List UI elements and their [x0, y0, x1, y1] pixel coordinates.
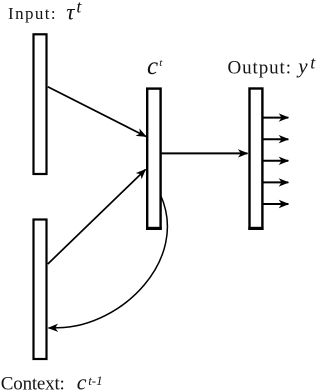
- svg-text:y: y: [296, 54, 308, 78]
- label Output: y^t: [228, 53, 317, 79]
- output arrow 3: [262, 160, 288, 162]
- output arrow 1: [262, 117, 288, 119]
- context layer bar: [34, 220, 47, 360]
- svg-text:t: t: [310, 53, 316, 73]
- output bar thick bottom edge: [248, 227, 263, 230]
- input layer bar: [34, 34, 47, 174]
- wire hidden to output: [161, 152, 248, 154]
- recurrent arc hidden to context: [49, 195, 168, 328]
- label Input: tau^t: [8, 0, 82, 25]
- svg-text:Context:: Context:: [1, 374, 65, 392]
- output layer bar: [250, 89, 263, 229]
- svg-text:τ: τ: [66, 0, 75, 25]
- svg-text:c: c: [147, 53, 158, 80]
- label c^t (hidden layer): [147, 53, 163, 80]
- output arrow 5: [262, 203, 288, 205]
- output arrow 2: [262, 138, 288, 140]
- svg-text:t-1: t-1: [88, 373, 102, 388]
- wire context to hidden: [48, 170, 146, 265]
- hidden bar thick bottom edge: [146, 227, 162, 230]
- svg-text:c: c: [77, 370, 87, 392]
- output arrow 4: [262, 181, 288, 183]
- hidden layer bar c^t: [147, 89, 160, 229]
- label Context: c^(t-1): [1, 370, 103, 392]
- wire input to hidden: [48, 87, 146, 137]
- svg-text:Input:: Input:: [8, 4, 56, 23]
- svg-text:Output:: Output:: [228, 58, 292, 79]
